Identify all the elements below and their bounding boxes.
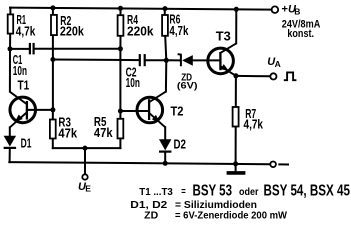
svg-text:BSY 54, BSX 45: BSY 54, BSX 45 (264, 183, 351, 200)
svg-text:oder: oder (239, 186, 259, 198)
svg-text:E: E (85, 184, 91, 194)
svg-text:10n: 10n (126, 76, 140, 90)
svg-text:D1: D1 (21, 136, 32, 150)
svg-text:(6V): (6V) (177, 81, 198, 92)
svg-text:4,7k: 4,7k (169, 24, 188, 38)
svg-text:T1: T1 (18, 79, 30, 93)
svg-text:D1, D2: D1, D2 (130, 200, 168, 211)
svg-text:= 6V-Zenerdiode 200 mW: = 6V-Zenerdiode 200 mW (175, 211, 288, 222)
svg-text:= Siliziumdioden: = Siliziumdioden (175, 200, 257, 211)
svg-text:D2: D2 (174, 138, 187, 152)
svg-text:47k: 47k (58, 127, 77, 141)
svg-text:47k: 47k (94, 126, 113, 140)
svg-text:220k: 220k (127, 25, 154, 39)
svg-text:BSY 53: BSY 53 (193, 183, 233, 200)
svg-text:T3: T3 (216, 29, 231, 43)
svg-text:4,7k: 4,7k (244, 117, 264, 131)
svg-text:T2: T2 (171, 105, 184, 119)
svg-text:konst.: konst. (287, 28, 314, 40)
svg-text:10n: 10n (13, 64, 27, 78)
svg-text:ZD: ZD (144, 211, 158, 222)
svg-text:4,7k: 4,7k (16, 24, 36, 38)
svg-text:220k: 220k (60, 24, 84, 38)
svg-text:T1 ...T3: T1 ...T3 (139, 187, 173, 198)
svg-text:A: A (275, 59, 281, 69)
svg-text:=: = (181, 187, 186, 198)
svg-text:B: B (294, 7, 300, 17)
